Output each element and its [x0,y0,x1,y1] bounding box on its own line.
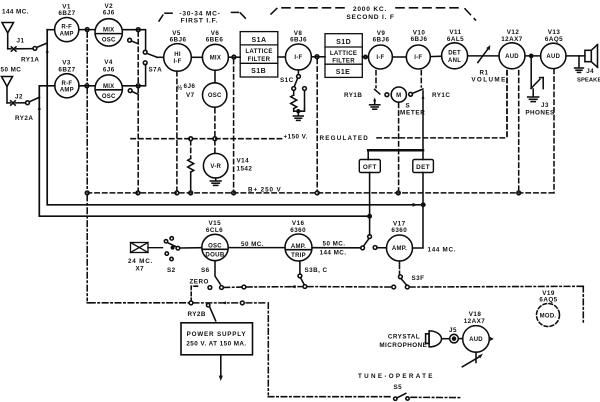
node B+ x233 [232,191,236,195]
svg-text:S: S [406,103,411,110]
svg-text:6CL6: 6CL6 [206,227,223,234]
svg-text:OSC: OSC [102,38,116,44]
svg-text:METER: METER [400,110,426,117]
svg-text:TUNE-OPERATE: TUNE-OPERATE [358,373,435,380]
wire V9 to RY1B dashed [375,71,377,88]
svg-text:50 MC.: 50 MC. [241,241,264,248]
svg-text:OSC: OSC [208,243,222,249]
antenna 144MC [2,23,14,49]
wire V2 output to S7A [122,28,145,50]
svg-text:R-F: R-F [61,25,72,31]
arrow V18 output [490,337,494,341]
svg-text:R1: R1 [480,69,489,76]
resistor +150 to B+ [188,141,194,191]
tube V4 6J6 MIX OSC [95,59,122,102]
gang arrow left on RY2B line [221,301,226,304]
tube V1 6BZ7 R-F AMP [55,3,79,41]
connector J1 [8,47,33,51]
svg-text:OFT: OFT [363,164,377,171]
switch S3A band contacts [361,235,387,250]
tube V16 6360 AMP TRIP [285,220,312,261]
svg-text:AUD: AUD [546,54,560,60]
speaker J4 [585,45,598,68]
tube V5 6BJ6 HI I-F [164,30,192,71]
tube V14 0A2 V-R [203,153,252,178]
ground RY1B [370,105,380,109]
switch S3F from V17 [392,261,409,289]
svg-text:6J6: 6J6 [103,66,115,73]
rail B+ 250V dashed [87,69,554,193]
node B+ x398 [396,191,400,195]
wire thick link OFT-DET [368,149,423,152]
arrow below power supply [219,355,223,381]
svg-text:144 MC.: 144 MC. [320,250,347,257]
svg-text:R-F: R-F [62,81,73,87]
svg-text:6BE6: 6BE6 [206,36,224,43]
node on +150 rail x215 [213,137,217,141]
svg-text:VOLUME: VOLUME [471,76,506,83]
svg-text:OSC: OSC [102,94,116,100]
ground J3 [528,97,539,102]
svg-text:V7: V7 [186,92,195,99]
wire V6 junction to B+ dashed [233,59,235,191]
tube V9 6BJ6 I-F [368,30,392,69]
wire filter1 to V8 [278,56,286,58]
lattice filter 1 S1A S1B [240,32,278,77]
svg-text:50 MC.: 50 MC. [323,240,346,247]
switch S7A [143,50,163,64]
meter M S-meter [391,87,406,102]
svg-text:REGULATED: REGULATED [320,135,370,142]
svg-text:6360: 6360 [391,227,407,234]
tube V3 6BZ7 R-F AMP [55,60,79,98]
wire V10 to RY1C dashed [420,71,422,87]
tube V7 half 6J6 OSC [177,83,227,107]
svg-text:V13: V13 [548,29,561,36]
wire V12 to +150 dashed [506,71,508,136]
wire V7 to regulated rail dashed [214,109,216,137]
rail +150V regulated dashed [131,71,507,139]
resistor under S1C [291,90,299,111]
svg-text:S1B: S1B [251,68,266,75]
wire 50MC trunk [39,86,369,216]
node B+ x317 [315,191,319,195]
wire RY1C trunk to DET [422,91,424,160]
node B+ x138 [136,191,140,195]
svg-text:FIRST I.F.: FIRST I.F. [181,18,219,25]
svg-text:OSC: OSC [208,93,222,99]
wire V3 to V4 [79,84,95,88]
wire 144MC trunk [47,30,423,205]
wire S6 gang dash-dot [224,286,302,289]
svg-text:S1C: S1C [280,77,294,84]
wire meter to B+ dashed [398,103,400,191]
svg-text:AMP.: AMP. [291,244,306,250]
svg-text:S2: S2 [167,267,176,274]
svg-text:S7A: S7A [149,67,163,74]
potentiometer gain below V18 [462,352,483,367]
dashed brace 30-34 MC first IF [159,12,248,21]
svg-text:LATTICE: LATTICE [245,48,272,55]
wire control dashed x87 [86,32,88,301]
dashed brace 2000KC second IF [271,8,476,20]
svg-text:250 V. AT 150 MA.: 250 V. AT 150 MA. [186,341,246,348]
wire V6 to V7 [214,70,216,83]
switch S6 from V15 [208,261,246,290]
wire V6 out to filter [229,55,241,59]
gang arrow left [290,285,295,288]
svg-text:DOUB: DOUB [205,251,224,258]
svg-text:TRIP: TRIP [291,253,306,259]
svg-text:V14: V14 [237,158,250,165]
svg-text:MIX: MIX [103,28,114,34]
wire RY2B control line dashed [87,302,266,304]
svg-text:MIX: MIX [210,55,221,61]
ground V14 [210,178,221,185]
svg-text:AMP.: AMP. [392,246,407,252]
svg-text:J1: J1 [17,38,25,45]
tube V18 12AX7 AUD [463,311,490,352]
svg-text:I-F: I-F [376,55,384,61]
tube V13 6AQ5 AUD [541,29,566,68]
svg-text:S1D: S1D [336,39,351,46]
ground speaker return [575,56,584,73]
svg-text:I-F: I-F [414,55,422,61]
tube V19 6AQ5 MOD dashed [537,304,560,327]
svg-text:144 MC.: 144 MC. [2,8,29,15]
switch S2 [164,237,202,261]
crystal X7 24MC [131,243,149,253]
svg-text:RY2B: RY2B [188,311,206,318]
svg-text:V11: V11 [449,29,461,36]
svg-text:CRYSTAL: CRYSTAL [388,333,420,340]
svg-text:12AX7: 12AX7 [501,36,523,43]
svg-text:24 MC.: 24 MC. [128,258,153,265]
svg-text:AUD: AUD [469,337,483,343]
svg-text:6J6: 6J6 [103,10,115,17]
svg-text:J3: J3 [541,102,549,109]
antenna 50MC [2,77,13,103]
wire link corner to OFT [367,150,369,159]
tube V8 6BJ6 I-F [285,30,311,70]
svg-text:MOD.: MOD. [540,314,557,320]
tube V11 6AL5 DET ANL [442,29,468,69]
relay contact RY2A [26,97,41,110]
svg-text:6BJ6: 6BJ6 [373,36,390,43]
node B+ x519 [517,191,521,195]
svg-text:AUD: AUD [505,54,519,60]
node B+ x177 [175,191,179,195]
jack J3 phones [531,56,543,97]
svg-text:DET: DET [448,51,461,57]
relay contact RY1A [33,43,49,52]
svg-text:S6: S6 [201,267,210,274]
svg-text:HI: HI [174,52,181,58]
box power supply [181,323,253,355]
node V4 osc pin [128,89,138,95]
svg-text:J4: J4 [586,68,594,75]
svg-text:J2: J2 [15,94,23,101]
connector J5 [442,334,463,343]
svg-text:6AQ5: 6AQ5 [545,36,563,43]
svg-text:+150 V.: +150 V. [284,134,308,141]
tube V15 6CL6 OSC DOUB [202,220,228,261]
node gang x242 [240,301,244,305]
node V2 osc pin [128,38,138,44]
wire V5 to V6 [191,56,202,58]
wire V12 to B+ dashed [518,71,520,191]
wire to V14 dashed [214,141,216,154]
svg-text:V12: V12 [507,29,520,36]
wire OFT to 50MC line [368,173,371,236]
svg-text:6J6: 6J6 [184,83,196,90]
svg-text:I-F: I-F [294,55,302,61]
svg-text:M: M [396,93,401,99]
svg-text:6360: 6360 [290,227,306,234]
svg-text:144 MC.: 144 MC. [428,247,457,254]
svg-text:ANL: ANL [448,58,461,64]
wire crystal to S2 [148,247,163,249]
svg-text:LATTICE: LATTICE [330,50,357,57]
wire V1 to V2 [79,28,95,32]
wire to V1 [47,29,54,31]
svg-text:50 MC: 50 MC [1,67,22,74]
connector J2 [7,101,26,105]
wire V15 to V16 [228,247,285,249]
switch S5 tune-operate [394,393,410,400]
svg-text:SPEAKER: SPEAKER [577,77,600,83]
lattice filter 2 S1D S1E [325,34,362,78]
box DET [413,160,434,173]
wire V12 to V13 with phones tap [525,54,541,57]
microphone symbol [426,331,442,347]
svg-text:-30-34 MC-: -30-34 MC- [179,11,220,18]
svg-text:1542: 1542 [237,166,253,173]
svg-text:6BZ7: 6BZ7 [58,66,75,73]
svg-text:V4: V4 [104,59,113,66]
node V8 output junction [311,55,325,59]
relay contact RY1B [373,89,389,104]
node on +150 rail x190 [189,137,193,141]
wire gang dash-dot right to V19 box [410,286,584,322]
wire S1C throw to ground [297,90,305,112]
wire zero bracket dashed [191,286,197,300]
wire V13 to speaker [566,55,585,57]
wire V16 output [312,247,361,249]
svg-text:S1E: S1E [336,69,351,76]
svg-text:RY1B: RY1B [344,92,362,99]
arrowhead on 144MC T-R line [413,203,418,207]
node B+ x87 [85,191,89,195]
svg-text:2000 KC.: 2000 KC. [353,6,387,13]
wire V10 to V11 [430,55,441,57]
svg-text:6BZ7: 6BZ7 [58,10,75,17]
ground below S1C [293,111,303,120]
svg-text:6BJ6: 6BJ6 [170,36,187,43]
svg-text:J5: J5 [449,327,457,334]
tube V2 6J6 MIX OSC [95,3,122,46]
svg-text:PHONES: PHONES [525,110,554,117]
svg-text:SECOND I. F: SECOND I. F [346,14,394,21]
svg-text:S1A: S1A [252,37,267,44]
svg-text:I-F: I-F [173,59,181,65]
node zero contact [189,301,193,305]
tube V12 12AX7 AUD [499,29,525,69]
svg-text:B+ 250 V: B+ 250 V [248,186,282,193]
svg-text:½: ½ [177,84,183,92]
wire DET to 144MC line to V17 [412,173,425,249]
svg-text:AMP: AMP [60,31,74,37]
switch S3B C from V16 [298,261,307,288]
svg-text:6AQ5: 6AQ5 [539,297,557,304]
wire junction to B+ dashed [316,59,318,191]
svg-text:12AX7: 12AX7 [464,318,486,325]
wire gang dash-dot mid [308,286,392,288]
svg-text:X7: X7 [136,265,145,272]
svg-text:ZERO: ZERO [190,279,209,286]
svg-text:V-R: V-R [210,164,221,170]
svg-text:AMP: AMP [60,88,74,94]
svg-text:FILTER: FILTER [332,57,355,64]
tube V10 6BJ6 I-F [406,30,430,69]
svg-text:6BJ6: 6BJ6 [290,36,307,43]
box OFT [359,160,380,173]
wire V5 screen dashed [176,72,178,191]
svg-text:RY1A: RY1A [21,57,39,64]
svg-text:6BJ6: 6BJ6 [411,36,428,43]
wire V9 to V10 [392,56,406,58]
svg-text:S3B, C: S3B, C [305,267,328,274]
svg-text:V18: V18 [469,311,482,318]
svg-text:RY2A: RY2A [15,115,33,122]
svg-text:S3F: S3F [412,275,425,282]
wire B+ feed V2 V4 dashed [137,32,139,191]
svg-text:RY1C: RY1C [432,92,450,99]
switch S1C [292,70,307,90]
tube V17 6360 AMP [387,221,413,261]
relay contact RY2B [207,304,216,321]
wire bottom enclosure dashed [268,303,462,398]
svg-text:DET: DET [416,164,430,171]
potentiometer R1 VOLUME [468,45,499,63]
svg-text:S5: S5 [394,384,403,391]
svg-text:MIX: MIX [103,84,114,90]
tube V6 6BE6 MIX [202,30,228,71]
svg-text:6AL5: 6AL5 [447,36,464,43]
node B+ x190 [189,191,193,195]
relay contact RY1C [409,89,425,99]
svg-text:POWER SUPPLY: POWER SUPPLY [187,331,247,338]
wire filter2 to V9 [362,55,368,58]
wire V4 output to S7A [122,65,145,88]
svg-text:MICROPHONE: MICROPHONE [379,342,427,349]
svg-text:FILTER: FILTER [248,56,271,63]
